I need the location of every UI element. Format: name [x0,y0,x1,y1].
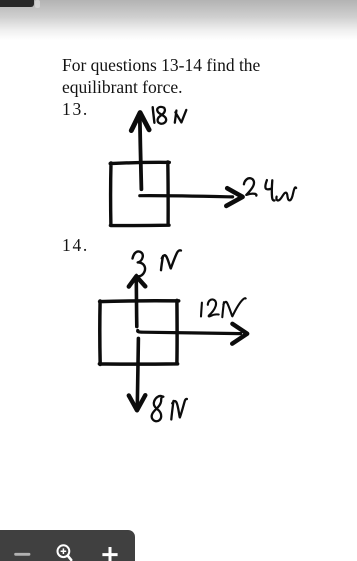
handwritten label "18N" : letter N [175,110,187,123]
zoom-in (plus) icon [102,547,117,561]
box (square) of diagram 13 [110,162,169,226]
12N arrowhead [232,324,247,344]
instruction text line 1 [62,54,260,76]
instruction text line 2 [62,76,183,98]
handwritten label "3 N" : letter N [161,250,181,270]
magnifier plus [61,548,67,554]
handwritten label "24N" : digit 2 [244,178,257,195]
handwritten label "12N" : digit 2 [208,299,219,316]
handwritten label "18N" : digit 1 [153,107,155,123]
8N force arrow shaft (down) [137,338,138,405]
3N arrowhead [129,276,146,286]
handwritten label "24N" : letter N (small) [276,187,296,200]
handwritten label "3 N" : digit 3 [133,251,146,276]
handwritten label "8N" : letter N [171,399,187,420]
18N arrowhead [131,113,149,131]
zoom-out (minus) icon, disabled gray [14,553,30,556]
handwritten label "24N" : digit 4 [265,180,274,200]
3N force arrow shaft (up) [135,281,139,327]
question number 13 [62,98,89,120]
8N arrowhead [129,395,146,410]
dark top-left tab [0,0,34,7]
handwritten label "8N" : digit 8 [152,396,164,421]
magnifier (zoom) icon circle [58,545,70,557]
24N force arrow shaft (right) [140,196,233,197]
magnifier handle [68,556,71,560]
handwritten label "12N" : letter N [222,298,245,317]
box (square) of diagram 14 [99,300,178,364]
handwritten label "12N" : digit 1 [200,303,203,317]
18N force arrow shaft (up) [140,117,142,190]
faint light mark right of tab [35,0,40,8]
24N arrowhead [226,188,242,206]
12N force arrow shaft (right) [138,330,241,333]
top gradient shade [0,0,357,40]
handwritten label "18N" : digit 8 [157,107,166,124]
bottom zoom toolbar [0,530,135,561]
question number 14 [62,234,89,256]
